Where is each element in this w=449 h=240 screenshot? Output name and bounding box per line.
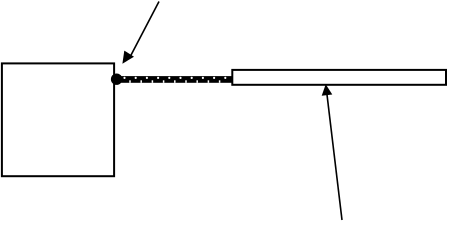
dashed thick bar (zipper pattern) [121,76,232,83]
long thin rectangle (right) [232,70,446,85]
pivot dot [111,74,122,85]
arrow 1: pointing down-left at the pivot dot [122,2,159,64]
arrow 2: pointing up at the thin rectangle [322,84,342,220]
square block (left) [2,63,114,176]
